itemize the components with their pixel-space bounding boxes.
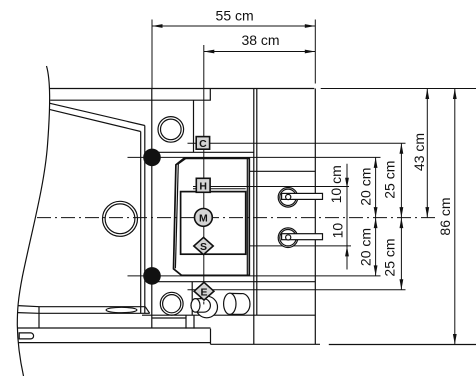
unit box outer <box>174 158 250 275</box>
svg-text:25 cm: 25 cm <box>381 238 397 276</box>
svg-text:H: H <box>199 181 207 193</box>
dimension 86 cm <box>437 89 457 345</box>
dimension 25 cm upper <box>381 143 403 217</box>
symbol E <box>194 282 214 300</box>
svg-text:86 cm: 86 cm <box>437 197 453 235</box>
upper-left diagonal 2 <box>49 109 140 131</box>
svg-text:C: C <box>199 138 207 150</box>
machine right edge <box>314 89 316 345</box>
svg-text:55 cm: 55 cm <box>216 7 254 23</box>
lower 10cm reference line <box>249 245 351 247</box>
floor line <box>211 343 321 345</box>
dimension 20 cm lower <box>358 218 378 276</box>
component centerline vertical <box>203 45 205 302</box>
C line <box>188 142 406 144</box>
unit box right inner edge <box>246 158 248 275</box>
dimension 55 cm <box>152 7 315 28</box>
interior shelf line upper A <box>152 151 254 153</box>
floor line right <box>329 344 476 346</box>
machine top lower edge with step <box>50 89 210 101</box>
svg-text:S: S <box>200 241 207 253</box>
symbol H <box>196 178 210 192</box>
base step to floor <box>210 329 212 345</box>
centerline dash-dot <box>37 217 438 219</box>
black dot upper <box>143 149 161 167</box>
dimension 38 cm <box>204 32 315 53</box>
base top face back edge <box>18 306 145 307</box>
base top face front edge <box>18 312 150 315</box>
symbol C <box>196 137 209 150</box>
inner wall vertical A <box>140 132 142 314</box>
mid wall line A <box>253 89 255 345</box>
bottom cylinder 2 <box>224 293 250 314</box>
dimension 43 cm <box>411 89 429 218</box>
lower roller circle <box>278 228 322 248</box>
E line <box>188 289 406 291</box>
unit box inner left edge <box>175 164 178 269</box>
outer shell curved left edge <box>17 66 49 376</box>
base rail pill slot <box>19 333 33 339</box>
20cm upper reference line through dot <box>128 156 381 158</box>
svg-text:10 cm: 10 cm <box>328 165 344 203</box>
top reference extension line right <box>321 88 476 90</box>
upper-left diagonal 1 <box>50 103 145 125</box>
foot lines under machine <box>185 315 187 328</box>
symbol S <box>194 237 213 254</box>
black dot lower <box>143 267 161 285</box>
bottom small cylinder 1 <box>191 296 218 318</box>
svg-text:E: E <box>200 286 207 298</box>
unit recess <box>181 192 246 255</box>
upper roller circle <box>278 188 322 208</box>
right section line y171 <box>249 170 315 172</box>
lower roller rod <box>282 234 323 240</box>
svg-text:43 cm: 43 cm <box>411 133 427 171</box>
base top face corner diagonal <box>145 307 150 314</box>
bottom compartment top line <box>152 281 315 283</box>
bottom-left double circle <box>160 292 183 315</box>
vertical x193 top segment <box>193 100 195 152</box>
svg-text:25 cm: 25 cm <box>381 161 397 199</box>
symbol M <box>195 209 213 227</box>
dimension 20 cm upper <box>358 157 378 217</box>
top-left double circle <box>158 117 184 143</box>
inner wall vertical B <box>144 126 146 314</box>
vertical x192 bottom segment <box>191 282 193 316</box>
machine front-left edge <box>151 89 153 329</box>
20cm lower reference line through dot <box>128 275 381 277</box>
base left end curve <box>38 307 40 328</box>
H line <box>193 186 349 188</box>
svg-text:38 cm: 38 cm <box>241 32 279 48</box>
svg-text:20 cm: 20 cm <box>358 168 374 206</box>
compartment floor line <box>142 314 315 316</box>
upper roller rod <box>282 193 323 199</box>
dimension 10 cm pair <box>328 164 349 270</box>
svg-text:20 cm: 20 cm <box>358 228 374 266</box>
mid wall line B <box>256 89 258 316</box>
base oval slot <box>106 307 137 312</box>
right edge extension to top dims <box>314 20 316 84</box>
machine top edge <box>50 88 315 90</box>
front-left extension line to 55cm dim <box>151 20 153 89</box>
svg-text:10: 10 <box>330 223 346 239</box>
left section big double circle <box>103 201 138 236</box>
svg-text:M: M <box>199 212 208 224</box>
base front bottom edge <box>18 327 211 329</box>
base rail bottom <box>18 342 210 344</box>
dimension 25 cm lower <box>381 218 403 290</box>
unit box top face front edge <box>178 158 186 164</box>
